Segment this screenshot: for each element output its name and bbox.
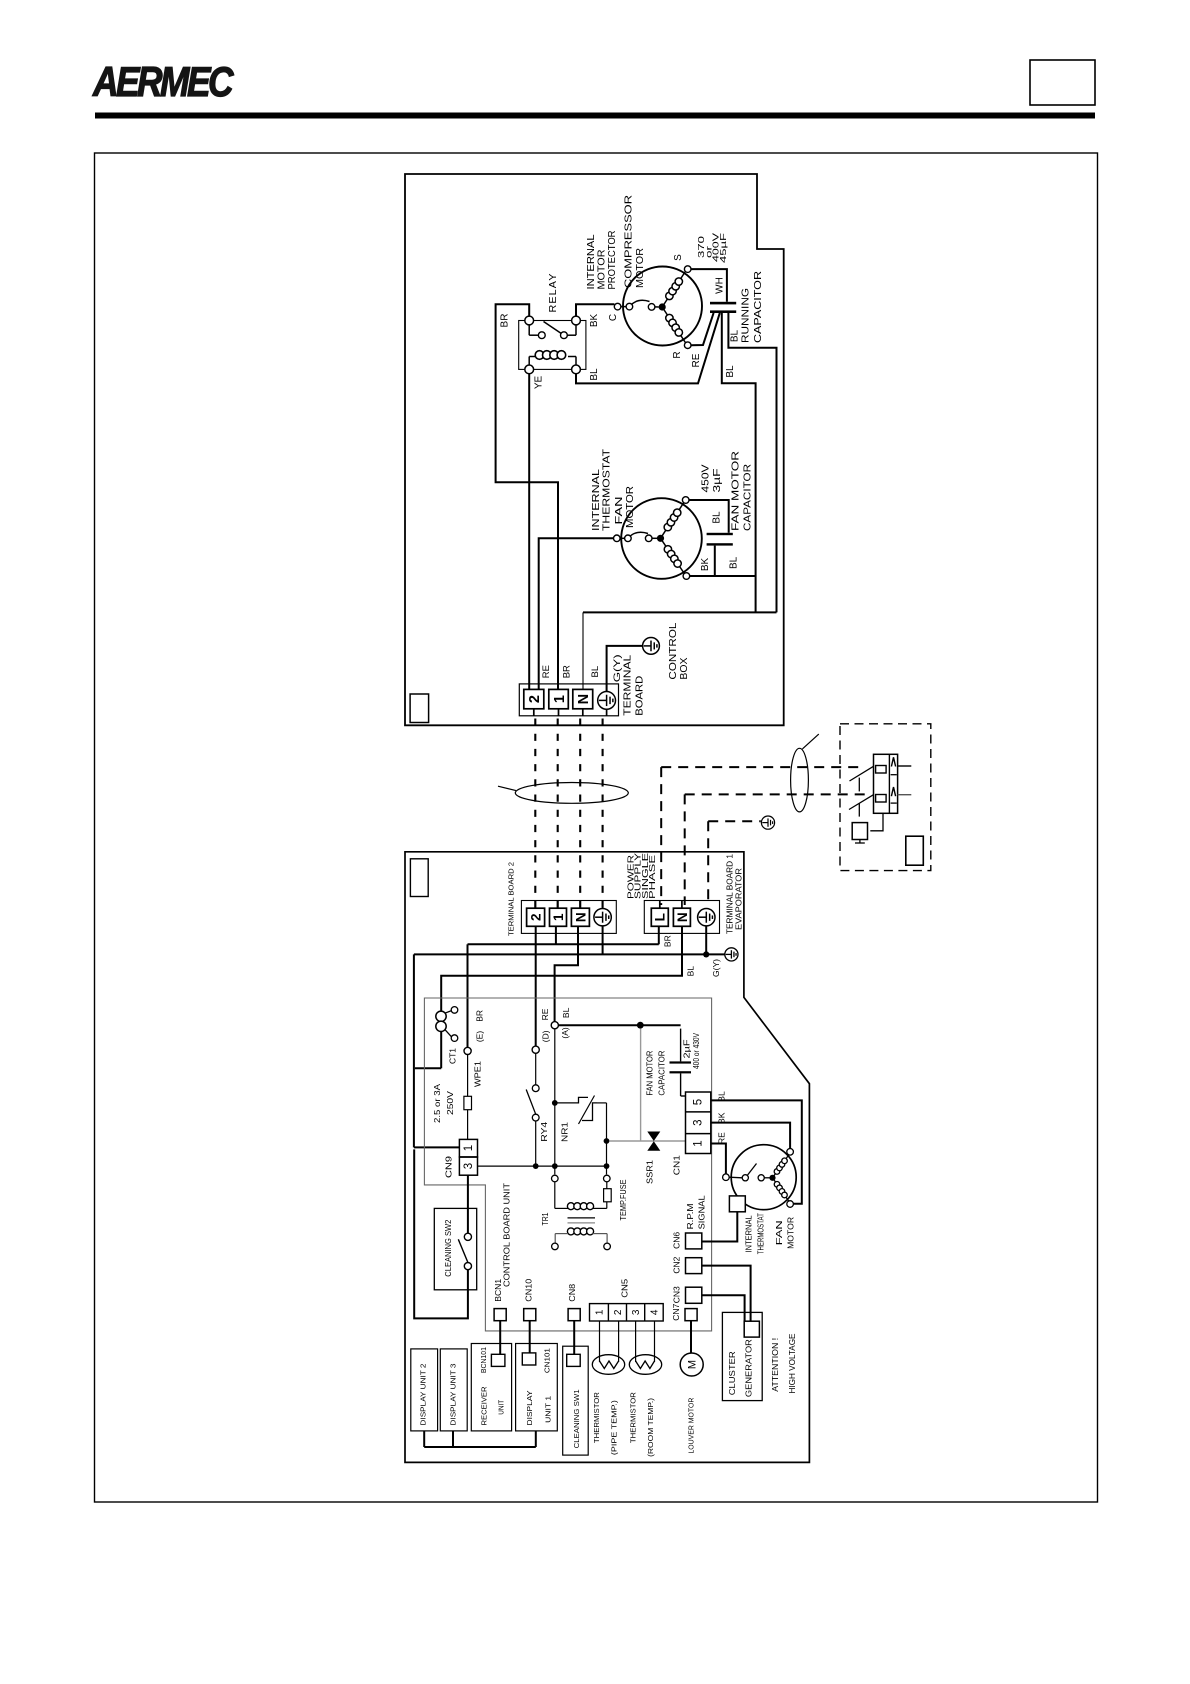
svg-text:BR: BR [662,935,672,947]
svg-text:RECEIVER: RECEIVER [480,1386,489,1426]
svg-text:R: R [672,351,683,358]
svg-text:SIGNAL: SIGNAL [697,1195,706,1230]
svg-text:CAPACITOR: CAPACITOR [743,464,754,531]
svg-text:TR1: TR1 [540,1212,550,1225]
svg-text:CN5: CN5 [620,1278,629,1298]
svg-text:2: 2 [528,913,543,921]
svg-text:MOTOR: MOTOR [635,248,646,288]
svg-text:CN10: CN10 [524,1278,533,1302]
svg-text:3µF: 3µF [712,469,723,493]
svg-text:AERMEC: AERMEC [92,58,234,105]
svg-text:BCN1: BCN1 [494,1278,503,1302]
svg-text:BL: BL [728,556,739,569]
svg-text:THERMOSTAT: THERMOSTAT [757,1213,766,1254]
svg-text:DISPLAY UNIT 3: DISPLAY UNIT 3 [449,1364,458,1426]
svg-text:2: 2 [527,695,543,703]
svg-text:RE: RE [541,665,552,678]
svg-text:CONTROL BOARD UNIT: CONTROL BOARD UNIT [502,1183,512,1287]
svg-text:2: 2 [613,1309,624,1315]
svg-text:BK: BK [589,314,600,328]
svg-text:ATTENTION !: ATTENTION ! [771,1338,780,1392]
svg-text:TERMINAL BOARD 2: TERMINAL BOARD 2 [507,862,516,936]
svg-text:G(Y): G(Y) [712,959,721,977]
svg-text:MOTOR: MOTOR [786,1217,795,1249]
svg-text:(D): (D) [540,1030,550,1042]
svg-text:BL: BL [561,1007,571,1018]
svg-text:3: 3 [693,1119,705,1125]
svg-text:BK: BK [700,558,711,572]
svg-text:TERMINAL BOARD 1: TERMINAL BOARD 1 [725,853,734,934]
svg-text:RUNNING: RUNNING [741,288,752,343]
svg-text:CN7: CN7 [672,1303,681,1321]
svg-text:CN101: CN101 [542,1348,551,1373]
svg-text:EVAPORATOR: EVAPORATOR [735,868,744,930]
svg-text:PROTECTOR: PROTECTOR [607,231,618,290]
svg-text:RE: RE [717,1132,727,1144]
svg-text:BL: BL [725,365,736,378]
svg-text:GENERATOR: GENERATOR [745,1339,754,1397]
svg-text:CN3: CN3 [672,1286,681,1304]
svg-text:BL: BL [730,329,741,342]
svg-text:BL: BL [590,666,601,678]
svg-text:R.P.M: R.P.M [686,1203,695,1229]
svg-text:CT1: CT1 [448,1048,458,1064]
svg-text:RY4: RY4 [539,1121,549,1141]
svg-text:45µF: 45µF [718,233,728,263]
svg-text:WH: WH [715,277,726,294]
svg-text:CONTROL: CONTROL [668,622,679,679]
svg-text:CN8: CN8 [568,1283,577,1302]
svg-text:BL: BL [589,368,600,381]
svg-text:BR: BR [561,665,572,678]
svg-text:1: 1 [693,1140,705,1146]
svg-text:TERMINAL: TERMINAL [623,654,634,716]
svg-text:BR: BR [500,314,511,328]
svg-text:UNIT: UNIT [497,1399,506,1414]
svg-text:RE: RE [540,1008,550,1020]
svg-text:CN6: CN6 [672,1231,681,1249]
svg-text:CAPACITOR: CAPACITOR [753,271,764,343]
svg-text:WPE1: WPE1 [473,1061,483,1087]
svg-text:CN2: CN2 [672,1256,681,1274]
svg-text:LOUVER MOTOR: LOUVER MOTOR [687,1397,696,1454]
svg-text:3: 3 [631,1309,642,1315]
svg-text:FAN MOTOR: FAN MOTOR [731,451,742,531]
svg-text:CLUSTER: CLUSTER [728,1351,737,1395]
svg-text:N: N [573,912,588,922]
svg-text:(ROOM TEMP.): (ROOM TEMP.) [646,1397,655,1457]
svg-text:3: 3 [463,1163,475,1169]
svg-text:PHASE: PHASE [648,855,657,899]
svg-text:THERMISTOR: THERMISTOR [592,1392,601,1444]
svg-text:YE: YE [534,376,545,390]
svg-text:COMPRESSOR: COMPRESSOR [624,195,635,288]
svg-text:BOARD: BOARD [635,676,646,716]
svg-text:UNIT 1: UNIT 1 [544,1396,553,1423]
svg-text:BOX: BOX [679,657,690,679]
svg-text:450V: 450V [701,464,712,492]
svg-text:250V: 250V [445,1091,455,1115]
svg-text:L: L [653,913,668,921]
svg-text:BL: BL [712,511,723,524]
svg-text:FAN: FAN [614,497,625,525]
svg-text:DISPLAY UNIT 2: DISPLAY UNIT 2 [419,1364,428,1426]
svg-text:INTERNAL: INTERNAL [586,234,597,289]
svg-text:RE: RE [691,353,702,367]
svg-text:4: 4 [650,1309,661,1315]
svg-text:CLEANING SW1: CLEANING SW1 [572,1389,581,1448]
svg-text:2µF: 2µF [682,1039,691,1058]
svg-text:C: C [608,314,619,321]
svg-text:FAN MOTOR: FAN MOTOR [645,1050,654,1095]
svg-text:FAN: FAN [775,1220,784,1245]
svg-text:1: 1 [463,1145,475,1151]
svg-text:(E): (E) [474,1031,484,1043]
svg-text:CN1: CN1 [672,1155,682,1175]
svg-text:SSR1: SSR1 [644,1160,654,1184]
svg-text:5: 5 [693,1099,705,1105]
svg-text:N: N [675,912,690,922]
svg-text:BR: BR [474,1010,484,1022]
svg-text:S: S [673,254,684,261]
svg-text:INTERNAL: INTERNAL [745,1215,754,1253]
svg-text:N: N [576,694,592,704]
svg-text:M: M [687,1360,699,1369]
svg-text:1: 1 [551,913,566,921]
svg-text:1: 1 [552,695,568,703]
svg-text:THERMOSTAT: THERMOSTAT [601,449,612,531]
svg-text:BCN101: BCN101 [479,1347,488,1373]
svg-text:DISPLAY: DISPLAY [525,1391,534,1426]
svg-text:(PIPE TEMP.): (PIPE TEMP.) [610,1400,619,1456]
svg-text:MOTOR: MOTOR [625,486,636,528]
svg-text:RELAY: RELAY [548,273,559,313]
svg-text:CAPACITOR: CAPACITOR [657,1050,666,1095]
svg-text:THERMISTOR: THERMISTOR [628,1392,637,1444]
svg-text:NR1: NR1 [559,1122,569,1142]
svg-text:CN9: CN9 [443,1156,453,1178]
svg-text:400 or 430V: 400 or 430V [692,1032,701,1069]
svg-text:HIGH VOLTAGE: HIGH VOLTAGE [788,1334,797,1394]
svg-text:MOTOR: MOTOR [597,250,608,290]
svg-text:CLEANING SW2: CLEANING SW2 [443,1219,453,1276]
svg-text:1: 1 [595,1309,606,1315]
svg-text:BL: BL [686,966,696,977]
svg-text:TEMP.FUSE: TEMP.FUSE [618,1179,628,1220]
svg-text:2.5 or 3A: 2.5 or 3A [432,1084,442,1123]
svg-text:(A): (A) [560,1027,570,1039]
